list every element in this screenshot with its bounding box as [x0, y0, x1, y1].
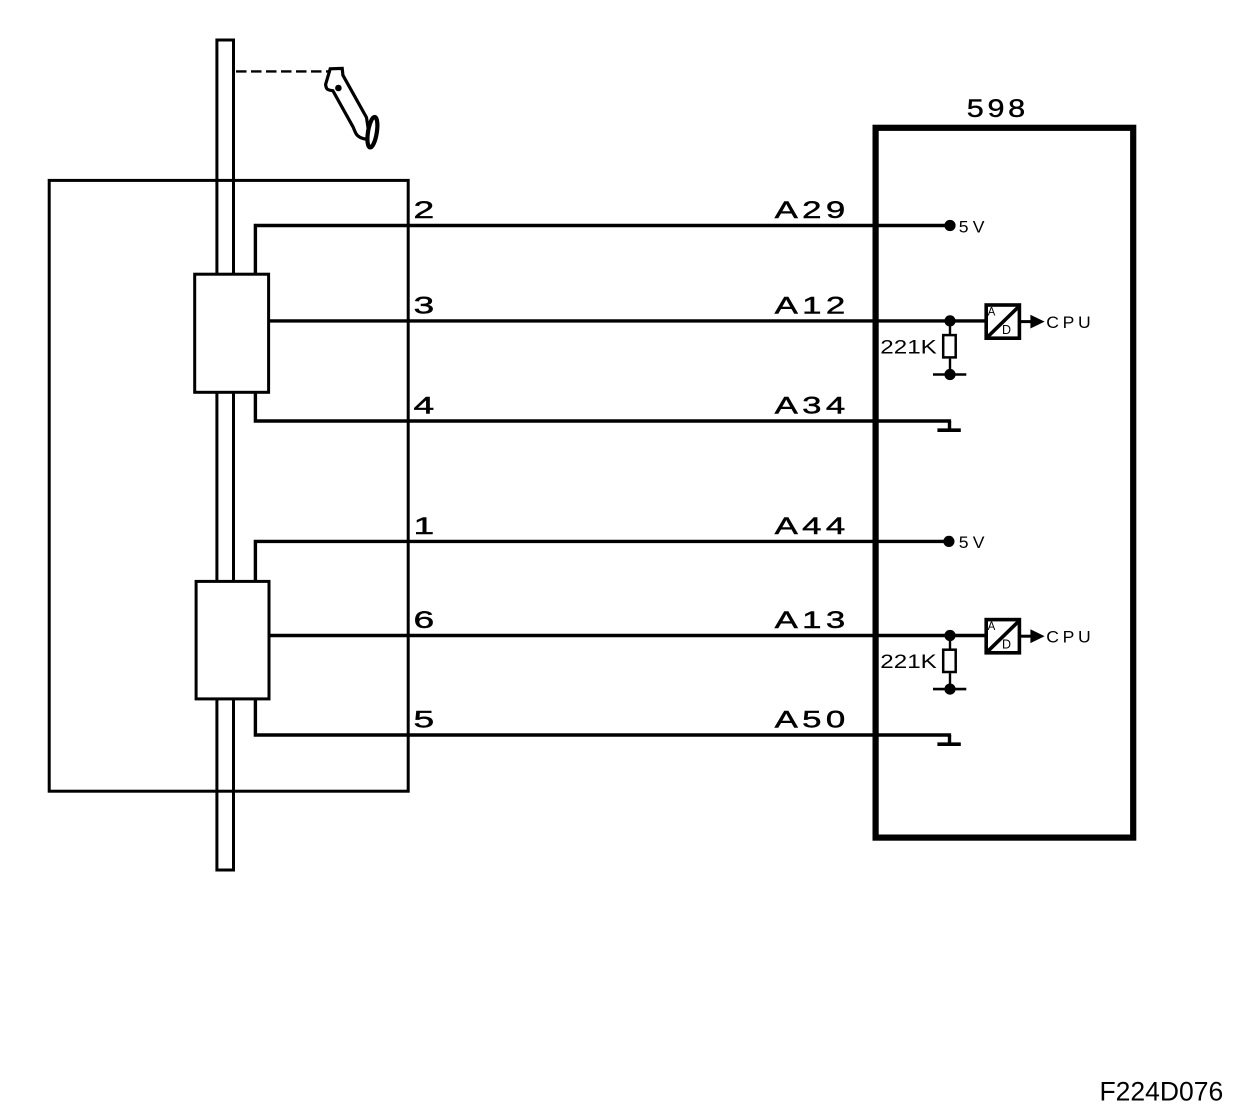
svg-text:598: 598	[967, 95, 1029, 123]
svg-text:5: 5	[414, 706, 435, 733]
5V terminal dot (A29)	[944, 220, 955, 231]
wire pin3 -> A12	[270, 319, 985, 322]
CPU arrow (upper)	[1021, 320, 1031, 323]
svg-text:CPU: CPU	[1046, 313, 1094, 332]
wire pin2 -> A29	[255, 226, 950, 275]
ECU box 598	[876, 128, 1134, 838]
potentiometer track P1 (upper)	[195, 274, 269, 392]
svg-text:5V: 5V	[959, 217, 989, 236]
A/D converter U2 (lower)	[986, 620, 1019, 653]
sensor outer box	[49, 180, 408, 791]
CPU arrow (lower)	[1021, 635, 1031, 638]
svg-text:A12: A12	[775, 292, 850, 318]
svg-text:D: D	[1002, 638, 1011, 652]
wire pin4 -> A34	[255, 393, 951, 422]
svg-text:A13: A13	[775, 607, 850, 633]
svg-text:A50: A50	[775, 707, 850, 733]
svg-text:2: 2	[414, 196, 435, 223]
resistor 221K (lower)	[949, 636, 951, 649]
pedal shaft rod	[217, 40, 234, 870]
svg-text:5V: 5V	[959, 533, 989, 552]
wire pin5 -> A50	[255, 699, 951, 735]
wire pin1 -> A44	[255, 541, 949, 581]
svg-text:CPU: CPU	[1046, 627, 1094, 646]
svg-text:6: 6	[414, 606, 435, 633]
svg-text:221K: 221K	[880, 652, 937, 673]
svg-text:A: A	[988, 307, 996, 319]
svg-text:4: 4	[414, 392, 435, 419]
ground rail dot (lower resistor)	[944, 684, 955, 695]
wire pin6 -> A13	[270, 634, 985, 637]
svg-text:1: 1	[414, 512, 435, 539]
ground rail dot (upper resistor)	[944, 369, 955, 380]
svg-text:D: D	[1002, 323, 1011, 337]
svg-text:A: A	[988, 621, 996, 633]
svg-text:221K: 221K	[880, 338, 937, 359]
ground symbol (A34)	[948, 421, 951, 430]
svg-text:3: 3	[414, 292, 435, 319]
A/D converter U1 (upper)	[986, 305, 1019, 338]
svg-text:A34: A34	[775, 393, 850, 419]
svg-text:F224D076: F224D076	[1100, 1076, 1224, 1106]
5V terminal dot (A44)	[943, 536, 954, 547]
junction node (A12)	[944, 315, 955, 326]
resistor 221K (upper)	[949, 321, 951, 334]
dashed link rod-to-pedal	[236, 70, 329, 72]
svg-text:A29: A29	[775, 197, 850, 223]
pedal	[326, 68, 380, 148]
ground symbol (A50)	[948, 735, 951, 744]
potentiometer track P2 (lower)	[196, 581, 269, 699]
junction node (A13)	[944, 630, 955, 641]
svg-text:A44: A44	[775, 513, 850, 539]
